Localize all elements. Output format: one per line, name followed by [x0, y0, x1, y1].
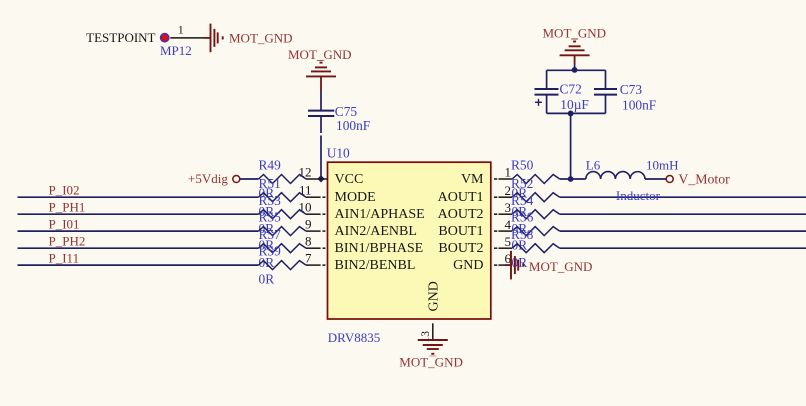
svg-text:VM: VM [461, 172, 484, 187]
svg-text:12: 12 [299, 164, 312, 179]
resistor R52 0R [511, 176, 560, 219]
svg-text:BOUT1: BOUT1 [438, 224, 483, 239]
svg-text:MOT_GND: MOT_GND [399, 355, 463, 370]
pin 7 of U10 [305, 251, 325, 266]
resistor R56 0R [511, 210, 560, 253]
svg-text:P_I02: P_I02 [49, 182, 80, 197]
wire C75 to pin 12 junction [320, 117, 322, 179]
svg-text:AIN2/AENBL: AIN2/AENBL [335, 224, 417, 239]
svg-text:R49: R49 [259, 158, 282, 173]
wire AOUT2 net [560, 213, 806, 215]
wire top bus [547, 69, 606, 71]
svg-text:10µF: 10µF [560, 97, 589, 112]
svg-text:+5Vdig: +5Vdig [188, 171, 228, 186]
svg-text:MOT_GND: MOT_GND [529, 259, 593, 274]
svg-text:10mH: 10mH [646, 158, 679, 173]
svg-text:AOUT1: AOUT1 [438, 190, 484, 205]
wire P_PH1 to resistor [18, 213, 259, 215]
svg-text:P_I11: P_I11 [49, 250, 80, 265]
svg-text:7: 7 [305, 251, 312, 266]
wire BOUT2 net [560, 247, 806, 249]
port P_PH2 [49, 233, 86, 248]
svg-text:C75: C75 [335, 104, 358, 119]
pin 5 of U10 [494, 234, 512, 249]
wire +5Vdig to R49 [240, 178, 259, 180]
svg-text:MOT_GND: MOT_GND [288, 47, 352, 62]
svg-text:C72: C72 [560, 82, 582, 97]
ground MOT_GND (rotated, testpoint) [211, 24, 293, 53]
svg-text:MP12: MP12 [160, 43, 192, 58]
pin 2 of U10 [494, 183, 512, 198]
svg-text:R51: R51 [259, 176, 281, 191]
svg-text:8: 8 [305, 234, 312, 249]
pin 6 of U10 [494, 251, 512, 266]
wire ground to C75 [320, 91, 322, 110]
svg-text:100nF: 100nF [336, 118, 370, 133]
wire P_PH2 to resistor [18, 247, 259, 249]
svg-text:R53: R53 [259, 193, 282, 208]
pin 8 of U10 [305, 234, 325, 249]
svg-text:MOT_GND: MOT_GND [543, 25, 607, 40]
wire P_I01 to resistor [18, 230, 259, 232]
svg-text:TESTPOINT: TESTPOINT [86, 30, 155, 45]
ground MOT_GND (below U10) [399, 340, 463, 370]
svg-text:GND: GND [426, 281, 441, 311]
svg-text:R57: R57 [259, 227, 282, 242]
ground MOT_GND (above C72/C73) [543, 25, 607, 64]
wire P_I11 to resistor [18, 264, 259, 266]
resistor R57 0R [259, 227, 307, 270]
wire testpoint to ground [205, 37, 211, 39]
svg-text:R59: R59 [259, 244, 282, 259]
resistor R55 0R [259, 210, 307, 253]
pin 1 of MP12 [170, 23, 204, 38]
terminal V_Motor [666, 171, 730, 186]
wire P_I02 to resistor [18, 196, 259, 198]
port P_I01 [49, 216, 80, 231]
pin 10 of U10 [299, 200, 326, 215]
junction VM/cap branch [568, 176, 574, 182]
wire L6 to V_Motor [645, 178, 666, 180]
svg-text:R52: R52 [511, 176, 533, 191]
svg-text:P_PH2: P_PH2 [49, 233, 86, 248]
svg-text:MOT_GND: MOT_GND [229, 31, 293, 46]
wire VM net [560, 178, 586, 180]
pin 13 of U10 [420, 323, 433, 342]
junction top bus [572, 67, 578, 73]
svg-text:AOUT2: AOUT2 [438, 207, 484, 222]
svg-text:P_I01: P_I01 [49, 216, 80, 231]
pin 1 of U10 [494, 165, 512, 180]
svg-text:R54: R54 [511, 193, 534, 208]
svg-text:11: 11 [299, 183, 312, 198]
svg-text:C73: C73 [620, 82, 643, 97]
power net +5Vdig [188, 171, 240, 186]
svg-text:BIN1/BPHASE: BIN1/BPHASE [335, 241, 424, 256]
svg-text:P_PH1: P_PH1 [49, 199, 86, 214]
pin 12 of U10 [299, 164, 328, 179]
svg-text:0R: 0R [512, 255, 528, 270]
capacitor C72 10uF [535, 70, 589, 113]
op-amp U10 DRV8835 ic body [327, 145, 491, 345]
svg-text:R56: R56 [511, 210, 534, 225]
wire cap bank to VM line [570, 113, 572, 179]
svg-text:GND: GND [453, 258, 483, 273]
wire AOUT1 net [560, 196, 806, 198]
pin 9 of U10 [305, 217, 325, 232]
testpoint MP12 [86, 30, 192, 58]
resistor R50 0R [511, 158, 560, 201]
capacitor C73 100nF [594, 70, 656, 113]
svg-text:L6: L6 [586, 158, 601, 173]
svg-text:R58: R58 [511, 227, 534, 242]
wire ground to cap bus [574, 64, 576, 70]
wire pin6 to ground [505, 264, 511, 266]
wire bottom bus [547, 112, 606, 114]
ground MOT_GND (rotated, pin 6) [511, 251, 592, 280]
svg-text:R55: R55 [259, 210, 282, 225]
resistor R49 0R [259, 158, 307, 201]
pin 11 of U10 [299, 183, 325, 198]
port P_I11 [49, 250, 80, 265]
inductor L6 10mH [586, 158, 679, 204]
wire BOUT1 net [560, 230, 806, 232]
junction bottom bus [568, 111, 574, 117]
resistor R59 0R [259, 244, 307, 287]
svg-text:VCC: VCC [335, 172, 364, 187]
resistor R54 0R [511, 193, 560, 236]
svg-text:10: 10 [299, 200, 312, 215]
svg-text:100nF: 100nF [622, 98, 656, 113]
ground MOT_GND (above C75) [288, 47, 352, 91]
svg-text:Inductor: Inductor [616, 188, 661, 203]
svg-text:BIN2/BENBL: BIN2/BENBL [335, 258, 416, 273]
port P_PH1 [49, 199, 86, 214]
pin 3 of U10 [494, 200, 512, 215]
svg-text:1: 1 [178, 23, 184, 37]
pin 4 of U10 [494, 217, 512, 232]
port P_I02 [49, 182, 80, 197]
capacitor C75 100nF [308, 104, 370, 133]
svg-text:0R: 0R [259, 272, 275, 287]
svg-text:DRV8835: DRV8835 [328, 330, 380, 345]
svg-text:9: 9 [305, 217, 312, 232]
svg-text:V_Motor: V_Motor [678, 171, 730, 186]
resistor R53 0R [259, 193, 307, 236]
svg-text:AIN1/APHASE: AIN1/APHASE [335, 207, 425, 222]
svg-text:R50: R50 [511, 158, 534, 173]
resistor R58 0R [511, 227, 560, 270]
svg-text:MODE: MODE [335, 190, 376, 205]
svg-text:BOUT2: BOUT2 [438, 241, 483, 256]
svg-text:U10: U10 [327, 145, 350, 160]
resistor R51 0R [259, 176, 307, 219]
junction at VCC pin [317, 175, 324, 182]
